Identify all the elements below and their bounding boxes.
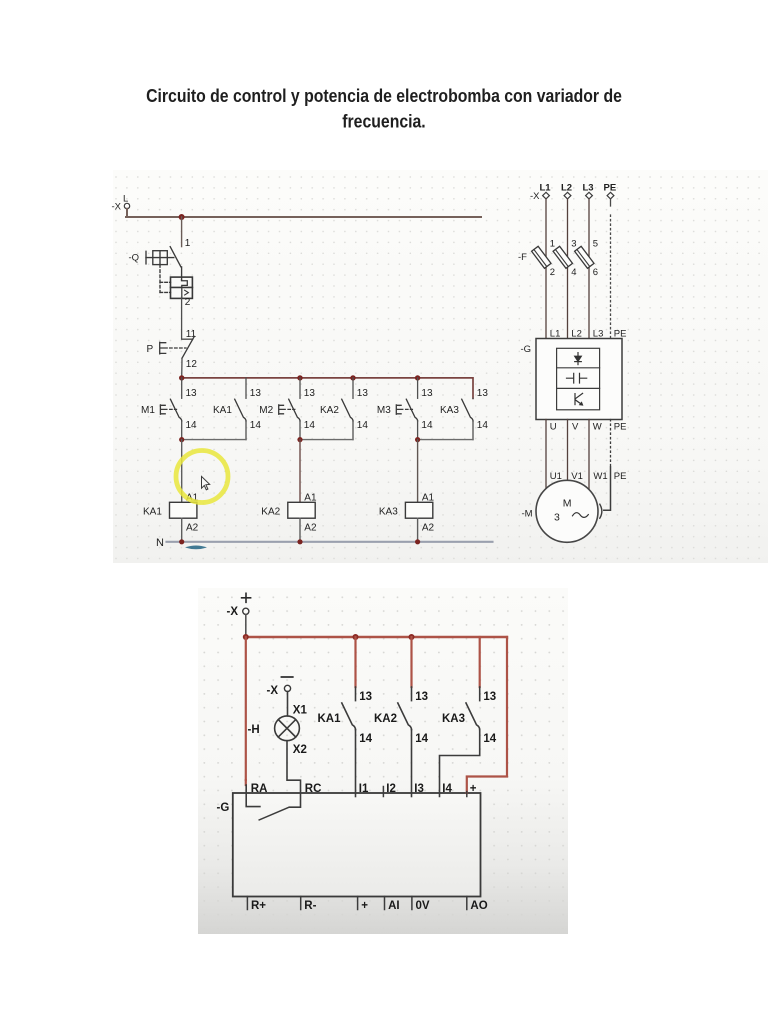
pin 2 xyxy=(182,297,197,340)
contact M2 (NO pushbutton) xyxy=(259,378,315,440)
svg-text:14: 14 xyxy=(415,733,428,745)
contact KA1 (NO) xyxy=(318,637,373,797)
svg-text:14: 14 xyxy=(359,733,372,745)
fuse pins 5 6 xyxy=(575,239,599,279)
node KA1 branch xyxy=(179,437,184,442)
svg-text:PE: PE xyxy=(614,471,627,482)
terminal L1 xyxy=(530,183,551,202)
VFD output labels U V W PE xyxy=(550,422,627,433)
node KA3 branch xyxy=(415,437,420,442)
svg-text:13: 13 xyxy=(250,388,262,399)
svg-text:AI: AI xyxy=(388,900,400,912)
bottom terminal AO xyxy=(467,897,488,912)
svg-text:Circuito de control y potencia: Circuito de control y potencia de electr… xyxy=(146,86,622,106)
overload relay of -Q xyxy=(171,277,193,298)
svg-text:I3: I3 xyxy=(414,783,424,795)
svg-text:KA1: KA1 xyxy=(318,713,342,725)
svg-text:-X: -X xyxy=(112,202,122,213)
node KA1 tap xyxy=(353,634,359,640)
node KA2 tap xyxy=(350,375,355,380)
bottom terminal 0V xyxy=(412,897,430,912)
svg-text:5: 5 xyxy=(593,239,598,250)
node N-KA3 xyxy=(415,539,420,544)
capacitor symbol xyxy=(567,373,587,383)
node M1 tap xyxy=(179,375,184,380)
motor -M xyxy=(522,480,602,542)
wire join M2-KA2 xyxy=(300,439,353,441)
terminal L2 xyxy=(561,183,572,199)
annotation yellow circle xyxy=(176,451,228,503)
svg-text:X1: X1 xyxy=(293,705,308,717)
mouse cursor xyxy=(202,476,210,489)
terminal labels RA RC I1 I2 I3 I4 + xyxy=(251,783,477,795)
wire W xyxy=(588,420,590,489)
svg-text:0V: 0V xyxy=(416,900,430,912)
contact KA1 (NO) xyxy=(213,378,261,440)
svg-text:2: 2 xyxy=(185,297,191,308)
svg-text:L: L xyxy=(123,194,128,205)
svg-text:1: 1 xyxy=(550,239,555,250)
node M2 tap xyxy=(297,375,302,380)
wire join M1-KA1 xyxy=(182,439,246,441)
svg-text:KA2: KA2 xyxy=(261,507,280,518)
node left branch xyxy=(243,634,249,640)
coil KA3 xyxy=(379,493,435,542)
svg-text:A2: A2 xyxy=(422,523,435,534)
wire N bus xyxy=(156,537,493,549)
wire L3 phase xyxy=(588,199,590,339)
svg-text:R-: R- xyxy=(304,900,316,912)
svg-text:M2: M2 xyxy=(259,405,273,416)
PLC/VFD -G box xyxy=(217,793,481,897)
svg-text:RA: RA xyxy=(251,783,268,795)
svg-text:3: 3 xyxy=(571,239,576,250)
wire PE lower xyxy=(604,420,611,511)
contact KA3 (NO) xyxy=(440,388,488,439)
node junction on L bus xyxy=(179,214,185,220)
motor terminal labels U1 V1 W1 PE xyxy=(550,471,627,482)
svg-text:PE: PE xyxy=(604,183,617,194)
svg-text:6: 6 xyxy=(593,267,598,278)
diode symbol xyxy=(575,353,582,365)
wire V xyxy=(567,420,569,482)
svg-text:13: 13 xyxy=(415,691,428,703)
svg-text:PE: PE xyxy=(614,422,627,433)
contact M3 (NO pushbutton) xyxy=(377,378,433,440)
svg-text:13: 13 xyxy=(359,691,372,703)
contact KA2 (NO) xyxy=(320,378,368,440)
svg-text:13: 13 xyxy=(357,388,369,399)
svg-text:L3: L3 xyxy=(583,183,594,194)
svg-text:-G: -G xyxy=(521,344,532,355)
node N-KA1 xyxy=(179,539,184,544)
svg-text:-X: -X xyxy=(530,191,540,202)
svg-text:+: + xyxy=(361,900,368,912)
terminal -X (minus) xyxy=(267,677,293,697)
wire to coil KA3 xyxy=(417,440,419,503)
breaker -Q xyxy=(129,247,182,293)
contact KA2 (NO) xyxy=(374,637,429,797)
svg-text:N: N xyxy=(156,537,164,549)
wire PE dotted xyxy=(610,199,612,339)
contact KA3 (NO) xyxy=(440,637,497,797)
pushbutton P (NC) xyxy=(147,336,195,358)
svg-text:-X: -X xyxy=(267,685,279,697)
node KA2 branch xyxy=(297,437,302,442)
svg-text:14: 14 xyxy=(186,420,198,431)
svg-text:14: 14 xyxy=(477,420,489,431)
wire join M3-KA3 xyxy=(418,439,473,441)
svg-text:W: W xyxy=(593,422,602,433)
wire U xyxy=(545,420,547,489)
terminal PE xyxy=(604,183,617,199)
relay contact RA-RC xyxy=(259,807,289,820)
svg-text:-X: -X xyxy=(227,606,239,618)
svg-text:-H: -H xyxy=(248,724,260,736)
annotation blue mark xyxy=(185,546,207,550)
node M3 tap xyxy=(415,375,420,380)
terminal -X (L) xyxy=(112,194,130,213)
wire RA inside xyxy=(245,780,247,785)
wire L bus xyxy=(126,209,481,217)
svg-text:13: 13 xyxy=(477,388,489,399)
wire to coil KA1 xyxy=(181,440,183,503)
wire X1 xyxy=(288,692,308,717)
coil KA1 xyxy=(143,493,199,542)
svg-text:1: 1 xyxy=(185,238,191,249)
svg-text:12: 12 xyxy=(186,359,198,370)
svg-text:11: 11 xyxy=(186,329,197,340)
svg-text:14: 14 xyxy=(250,420,262,431)
svg-text:P: P xyxy=(147,344,154,355)
svg-text:M: M xyxy=(563,498,572,510)
svg-text:3: 3 xyxy=(554,512,560,524)
bottom terminal R- xyxy=(301,897,317,912)
svg-text:W1: W1 xyxy=(593,471,607,482)
wire X2 to RC xyxy=(287,741,307,808)
wire L1 phase xyxy=(545,199,547,339)
contact M1 (NO pushbutton) xyxy=(141,378,197,440)
svg-text:R+: R+ xyxy=(251,900,266,912)
wire 1 xyxy=(182,217,191,249)
svg-text:KA3: KA3 xyxy=(379,507,398,518)
svg-text:I2: I2 xyxy=(386,783,396,795)
fuse -F pins 1 2 xyxy=(518,239,555,279)
node N-KA2 xyxy=(297,539,302,544)
wire L2 phase xyxy=(567,199,569,339)
svg-text:A2: A2 xyxy=(186,523,199,534)
red control bus xyxy=(182,378,473,399)
node KA2 tap xyxy=(409,634,415,640)
svg-text:M3: M3 xyxy=(377,405,391,416)
svg-text:L1: L1 xyxy=(540,183,552,194)
red + bus xyxy=(246,636,507,638)
svg-text:AO: AO xyxy=(470,900,487,912)
svg-text:-G: -G xyxy=(217,802,230,814)
svg-text:-F: -F xyxy=(518,252,527,263)
transistor symbol xyxy=(575,393,583,405)
svg-text:I1: I1 xyxy=(359,783,369,795)
bottom terminal + xyxy=(358,897,369,912)
red wire to + input xyxy=(467,637,507,793)
svg-text:-M: -M xyxy=(522,509,533,520)
svg-text:KA3: KA3 xyxy=(440,405,459,416)
svg-text:M1: M1 xyxy=(141,405,155,416)
svg-text:14: 14 xyxy=(357,420,369,431)
svg-text:KA1: KA1 xyxy=(143,507,162,518)
terminal stubs I1 I2 I3 I4 + xyxy=(383,787,466,797)
svg-text:KA3: KA3 xyxy=(442,713,465,725)
svg-text:L2: L2 xyxy=(561,183,572,194)
VFD -G box xyxy=(521,339,623,420)
bottom terminal R+ xyxy=(247,897,266,912)
svg-text:V: V xyxy=(572,422,579,433)
svg-text:KA2: KA2 xyxy=(374,713,397,725)
wire left branch to RA xyxy=(245,637,247,780)
terminal -X (+) xyxy=(227,593,251,618)
wire from + terminal xyxy=(245,615,247,636)
coil KA2 xyxy=(261,493,317,542)
svg-text:RC: RC xyxy=(305,783,322,795)
svg-text:13: 13 xyxy=(304,388,316,399)
svg-text:KA1: KA1 xyxy=(213,405,232,416)
svg-text:I4: I4 xyxy=(442,783,452,795)
svg-text:-Q: -Q xyxy=(129,253,140,264)
svg-text:X2: X2 xyxy=(293,744,307,756)
svg-text:14: 14 xyxy=(483,733,496,745)
svg-text:14: 14 xyxy=(421,420,433,431)
pin 12 / wire xyxy=(182,358,198,377)
svg-text:13: 13 xyxy=(421,388,433,399)
terminal L3 xyxy=(583,183,594,199)
lamp -H xyxy=(248,716,300,741)
svg-text:frecuencia.: frecuencia. xyxy=(342,111,425,131)
svg-text:U: U xyxy=(550,422,557,433)
svg-text:13: 13 xyxy=(483,691,496,703)
svg-text:2: 2 xyxy=(550,267,555,278)
wire to coil KA2 xyxy=(299,440,301,503)
svg-text:14: 14 xyxy=(304,420,316,431)
VFD -G input labels xyxy=(550,328,627,339)
svg-text:KA2: KA2 xyxy=(320,405,339,416)
svg-text:13: 13 xyxy=(186,388,198,399)
svg-text:4: 4 xyxy=(571,267,576,278)
fuse pins 3 4 xyxy=(553,239,577,279)
svg-text:A2: A2 xyxy=(304,523,317,534)
svg-text:+: + xyxy=(470,783,477,795)
bottom terminal AI xyxy=(385,897,400,912)
